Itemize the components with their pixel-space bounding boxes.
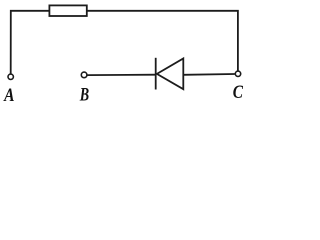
svg-text:A: A [3, 86, 14, 105]
svg-text:B: B [79, 85, 89, 105]
svg-text:C: C [233, 83, 244, 103]
